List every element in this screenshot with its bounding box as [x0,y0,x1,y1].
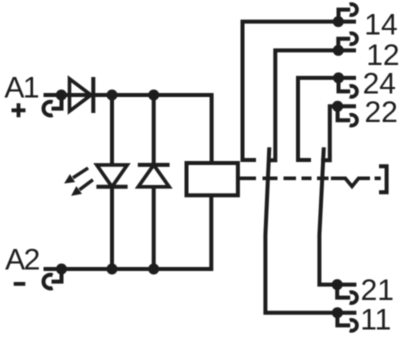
dashed actuator link [238,177,329,181]
terminal A1 clamp [44,95,62,115]
node terminal 11 junction [332,307,343,318]
node terminal 22 junction [332,101,343,112]
wire top coil rail A1 to coil [61,95,211,163]
diode V2 (freewheel) [138,165,170,187]
wire freewheel diode branch [152,95,156,269]
actuator chevron [331,178,381,186]
contact 2 NO path to terminal 24 [298,78,356,160]
node junction top diode branch [148,90,159,101]
contact 1 NC path to terminal 12 [267,50,356,160]
terminal 21 clamp [337,285,357,303]
wire bottom coil rail to A2 [62,195,212,269]
relay coil K1 [187,163,238,195]
node junction bottom LED branch [107,264,118,275]
node terminal 14 junction [333,16,344,27]
node junction top LED branch [107,90,118,101]
node terminal 21 junction [332,279,343,290]
label minus [14,282,26,286]
svg-text:14: 14 [364,9,397,42]
contact 1 NO path to terminal 14 [243,22,357,160]
contact 1 blade and pole to terminal 11 [265,147,356,312]
wire A2 stub [44,267,62,271]
svg-text:21: 21 [361,274,394,307]
terminal A2 clamp [44,269,62,288]
diode V1 (series) [70,77,94,113]
node junction bottom diode branch [148,264,159,275]
terminal 24 clamp [339,78,357,97]
terminal 11 clamp [337,313,357,331]
svg-text:A1: A1 [4,71,39,104]
node A2 junction [56,264,67,275]
contact 2 blade and pole to terminal 21 [319,147,356,284]
LED D1 [96,165,127,187]
terminal 14 clamp [339,4,357,21]
terminal 12 clamp [338,33,357,50]
contact 2 NC path to terminal 22 [321,106,356,160]
svg-text:A2: A2 [5,243,40,276]
LED arrows [64,168,93,196]
label plus [12,103,26,117]
wire LED branch [110,95,114,269]
terminal 22 clamp [338,106,357,125]
svg-text:11: 11 [360,303,391,336]
wire A1 stub [44,93,62,97]
actuator bracket [379,166,387,192]
svg-text:22: 22 [365,96,398,129]
node A1 junction [56,90,67,101]
node terminal 24 junction [333,72,344,83]
node terminal 12 junction [333,45,344,56]
